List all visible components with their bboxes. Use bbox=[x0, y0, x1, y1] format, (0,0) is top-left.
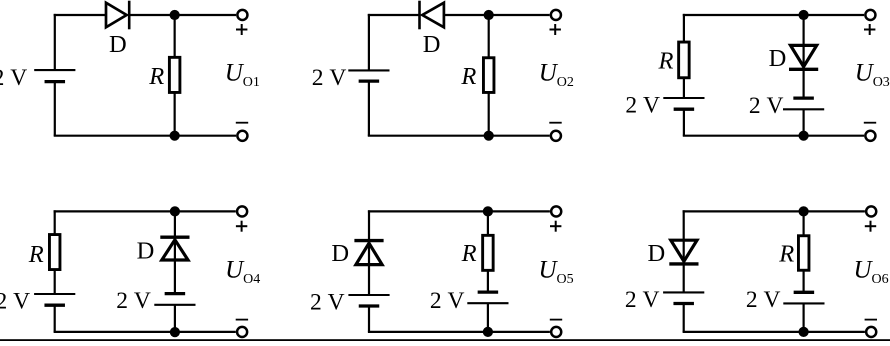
svg-text:2 V: 2 V bbox=[312, 65, 347, 91]
battery 2 V (circuit 6 mid, - up) bbox=[783, 292, 824, 303]
battery 2 V (circuit 6 left, + up) bbox=[663, 292, 704, 303]
svg-text:R: R bbox=[28, 241, 44, 268]
polarity label - bbox=[865, 319, 877, 321]
polarity label + bbox=[236, 221, 247, 232]
wire: top rail, diode to + terminal bbox=[130, 14, 236, 16]
terminal + (output UO3) bbox=[865, 10, 875, 20]
wire: battery + to bottom rail bbox=[802, 303, 804, 332]
node: bottom junction at diode branch bbox=[170, 327, 180, 337]
circuit 2: series diode reversed, battery left, load R — output UO2 bbox=[312, 1, 574, 141]
battery 2 V (circuit 1) bbox=[34, 70, 75, 82]
wire: left branch to resistor bbox=[54, 210, 56, 234]
terminal - (output UO5) bbox=[551, 327, 561, 337]
resistor R (circuit 3) bbox=[679, 42, 690, 78]
diode D (circuit 1, anode left) bbox=[106, 1, 129, 30]
node: top junction at diode bbox=[170, 206, 180, 216]
wire: resistor to battery + bbox=[54, 270, 56, 294]
wire: diode cathode to battery + bbox=[683, 240, 685, 292]
wire: battery + to bottom rail bbox=[174, 305, 176, 332]
terminal - (output UO3) bbox=[865, 131, 875, 141]
terminal - (output UO1) bbox=[237, 131, 247, 141]
wire: bottom rail bbox=[54, 331, 236, 333]
diode D (circuit 5, cathode up) bbox=[354, 241, 383, 265]
svg-text:2 V: 2 V bbox=[625, 93, 660, 119]
wire: resistor to battery + bbox=[683, 78, 685, 98]
battery 2 V (circuit 3 left, + up) bbox=[663, 98, 704, 109]
svg-text:U: U bbox=[854, 257, 874, 284]
wire: left branch to diode bbox=[683, 210, 685, 241]
wire: battery - to bottom rail bbox=[683, 109, 685, 136]
polarity label + bbox=[864, 24, 875, 35]
wire: diode cathode to battery - bbox=[802, 69, 804, 98]
node: bottom junction at diode branch bbox=[799, 131, 809, 141]
polarity label - bbox=[864, 122, 876, 124]
wire: diode anode to battery - bbox=[174, 237, 176, 293]
circuit 3: R branch and diode-down branch with opposing batteries — output UO3 bbox=[625, 10, 889, 141]
polarity label - bbox=[550, 319, 562, 321]
svg-text:2 V: 2 V bbox=[625, 287, 660, 313]
svg-text:U: U bbox=[539, 257, 559, 284]
battery 2 V (circuit 4 left, + up) bbox=[34, 294, 75, 305]
resistor R (circuit 4) bbox=[49, 235, 60, 270]
svg-text:R: R bbox=[658, 48, 674, 75]
polarity label - bbox=[549, 122, 561, 124]
wire: resistor down to bottom junction bbox=[488, 93, 490, 136]
terminal - (output UO6) bbox=[866, 327, 876, 337]
svg-text:D: D bbox=[331, 240, 349, 267]
node: top junction at diode bbox=[799, 10, 809, 20]
terminal + (output UO1) bbox=[237, 10, 247, 20]
wire: top rail bbox=[368, 210, 550, 212]
terminal + (output UO5) bbox=[551, 206, 561, 216]
svg-text:D: D bbox=[109, 31, 127, 58]
wire: bottom rail bbox=[683, 331, 865, 333]
svg-text:D: D bbox=[137, 238, 155, 265]
svg-text:2 V: 2 V bbox=[430, 288, 465, 314]
svg-text:2 V: 2 V bbox=[0, 65, 27, 91]
battery 2 V (circuit 2) bbox=[348, 70, 389, 81]
terminal + (output UO2) bbox=[551, 10, 561, 20]
svg-text:U: U bbox=[225, 257, 245, 284]
diode D (circuit 2, cathode left) bbox=[420, 1, 444, 30]
svg-text:R: R bbox=[778, 241, 794, 268]
wire: resistor to battery - bbox=[802, 270, 804, 292]
diode D (circuit 6, cathode down) bbox=[669, 240, 698, 264]
battery 2 V (circuit 4 mid, - up) bbox=[154, 294, 195, 305]
polarity label - bbox=[236, 319, 248, 321]
resistor R (circuit 2) bbox=[483, 58, 494, 93]
battery 2 V (circuit 5 mid, - up) bbox=[467, 292, 508, 303]
svg-text:O4: O4 bbox=[243, 272, 260, 287]
wire: bottom rail bbox=[683, 135, 864, 137]
terminal + (output UO4) bbox=[237, 206, 247, 216]
wire: battery - to bottom rail bbox=[54, 305, 56, 332]
wire: top rail bbox=[54, 210, 236, 212]
wire: resistor to battery - bbox=[487, 270, 489, 292]
svg-text:O5: O5 bbox=[557, 272, 574, 287]
svg-text:2 V: 2 V bbox=[0, 288, 30, 314]
svg-text:2 V: 2 V bbox=[116, 288, 151, 314]
wire: junction down to resistor bbox=[802, 211, 804, 235]
wire: battery - down to bottom rail bbox=[368, 81, 370, 136]
node: bottom junction at R branch bbox=[483, 327, 493, 337]
node: bottom junction at R branch bbox=[799, 327, 809, 337]
diode D (circuit 4, cathode up) bbox=[160, 237, 189, 260]
polarity label + bbox=[550, 221, 561, 232]
svg-text:R: R bbox=[148, 63, 164, 90]
wire: left branch from top rail down to battery + bbox=[368, 14, 370, 71]
polarity label - bbox=[236, 122, 248, 124]
wire: top rail, diode to + terminal bbox=[444, 14, 550, 16]
wire: top rail bbox=[683, 210, 865, 212]
circuit 4: R branch and diode-up branch with batteries — output UO4 bbox=[0, 206, 260, 337]
node: top junction at R bbox=[170, 10, 180, 20]
diode D (circuit 3, cathode down) bbox=[789, 45, 818, 69]
svg-text:O1: O1 bbox=[243, 75, 260, 90]
svg-text:O6: O6 bbox=[872, 272, 889, 287]
wire: top rail, battery to diode cathode bbox=[368, 14, 420, 16]
terminal - (output UO4) bbox=[237, 327, 247, 337]
wire: battery - to bottom rail bbox=[683, 304, 685, 332]
node: bottom junction at R bbox=[170, 131, 180, 141]
svg-text:D: D bbox=[423, 31, 441, 58]
svg-text:2 V: 2 V bbox=[746, 287, 781, 313]
polarity label + bbox=[550, 24, 561, 35]
wire: junction down to resistor bbox=[487, 211, 489, 235]
node: top junction at R bbox=[483, 206, 493, 216]
polarity label + bbox=[236, 24, 247, 35]
wire: battery - to bottom rail bbox=[368, 306, 370, 332]
node: bottom junction at R bbox=[484, 131, 494, 141]
wire: battery + to bottom rail bbox=[802, 109, 804, 135]
node: top junction at R bbox=[799, 206, 809, 216]
wire: battery - down to bottom rail bbox=[54, 82, 56, 136]
wire: bottom rail bbox=[54, 135, 236, 137]
battery 2 V (circuit 5 left, + up) bbox=[348, 295, 389, 306]
svg-text:U: U bbox=[539, 60, 559, 87]
svg-text:2 V: 2 V bbox=[749, 93, 784, 119]
wire: left branch to resistor bbox=[683, 14, 685, 42]
svg-text:R: R bbox=[460, 63, 476, 90]
battery 2 V (circuit 3 mid, - up) bbox=[783, 98, 824, 109]
svg-text:D: D bbox=[769, 45, 787, 72]
wire: bottom rail bbox=[368, 135, 550, 137]
svg-text:O3: O3 bbox=[873, 75, 890, 90]
svg-text:R: R bbox=[461, 240, 477, 267]
wire: junction down to resistor bbox=[174, 15, 176, 57]
wire: resistor down to bottom junction bbox=[174, 93, 176, 136]
wire: left branch to diode cathode bbox=[368, 210, 370, 240]
svg-text:2 V: 2 V bbox=[310, 290, 345, 316]
wire: top rail, battery to diode bbox=[54, 14, 107, 16]
svg-text:D: D bbox=[647, 240, 665, 267]
resistor R (circuit 1) bbox=[169, 57, 180, 92]
circuit 1: series diode, battery left, load R — output UO1 bbox=[0, 1, 260, 141]
wire: diode anode to battery + bbox=[368, 241, 370, 295]
terminal + (output UO6) bbox=[866, 206, 876, 216]
resistor R (circuit 5) bbox=[483, 235, 494, 270]
resistor R (circuit 6) bbox=[798, 236, 809, 271]
wire: bottom rail bbox=[368, 331, 550, 333]
wire: left branch from top rail down to battery + bbox=[54, 14, 56, 70]
node: top junction at R bbox=[484, 10, 494, 20]
page rule at bottom bbox=[0, 339, 890, 341]
wire: junction down to resistor bbox=[488, 15, 490, 58]
svg-text:O2: O2 bbox=[557, 75, 574, 90]
svg-text:U: U bbox=[225, 60, 245, 87]
wire: top rail bbox=[683, 14, 864, 16]
wire: junction down to diode bbox=[802, 15, 804, 69]
polarity label + bbox=[865, 221, 876, 232]
terminal - (output UO2) bbox=[551, 131, 561, 141]
wire: battery + to bottom rail bbox=[487, 303, 489, 332]
svg-text:U: U bbox=[855, 60, 875, 87]
circuit 5: diode-up branch and R branch with batteries — output UO5 bbox=[310, 206, 574, 337]
circuit 6: diode-down branch and R branch with batteries — output UO6 bbox=[625, 206, 889, 337]
wire: junction down to diode cathode bbox=[174, 211, 176, 237]
